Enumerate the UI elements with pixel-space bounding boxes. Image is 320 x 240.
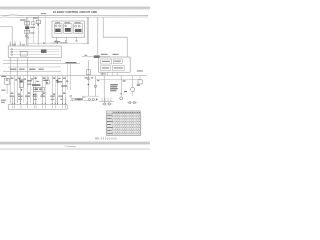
node dot: [57, 42, 59, 44]
wire drop x67b: [66, 64, 68, 90]
wire drop x17: [16, 58, 18, 104]
table header digits: [113, 112, 140, 113]
header bar: [0, 6, 150, 9]
wire riser x33: [32, 17, 34, 43]
node dot mid2: [42, 94, 43, 95]
wire spare: [44, 16, 46, 44]
node x121: [121, 93, 122, 94]
connector symbols above table right: [127, 101, 138, 103]
bus wire top B+: [0, 14, 148, 17]
wire drop x57: [57, 76, 59, 104]
relay box J/B: [52, 21, 85, 37]
wire stub: [50, 42, 57, 44]
fusible link F1: [25, 17, 30, 46]
label fuse: [33, 18, 37, 19]
wire drop x121: [120, 76, 122, 97]
label y54: [101, 54, 108, 55]
relay K2: [65, 25, 71, 32]
label top right of cluster: [41, 13, 46, 14]
table grid horizontals: [106, 114, 140, 133]
label under bcm: [100, 73, 105, 74]
label in bcm3: [102, 67, 109, 68]
label band x44: [43, 80, 48, 81]
wire h y57 right: [82, 56, 110, 58]
connector ring C: [76, 40, 78, 42]
label band x58: [57, 81, 62, 82]
wire riser x98: [97, 17, 99, 57]
breaker CB1: [32, 22, 35, 25]
wire drop x27: [26, 58, 28, 104]
display text block: [110, 84, 118, 91]
wire drop x55: [54, 76, 56, 104]
wire drop x62: [61, 76, 63, 104]
wire drop x10: [9, 58, 11, 104]
table row labels: [107, 115, 112, 135]
bus h y63: [3, 63, 80, 65]
wire label row under box: [60, 42, 67, 43]
mini rail right: [99, 98, 114, 102]
BCM box: [99, 57, 131, 72]
tick label y55: [85, 55, 88, 56]
battery B1: [5, 78, 10, 94]
wire drop K2: [65, 37, 67, 40]
contact stack: [11, 49, 13, 56]
small ring top right of rail: [70, 95, 72, 97]
wire left feed: [0, 27, 12, 46]
bcm pin drop 3: [111, 72, 113, 75]
pin table: [106, 111, 140, 135]
wire drop x20: [20, 76, 22, 104]
dark dash x57: [57, 79, 59, 83]
wire drop x52: [51, 76, 53, 104]
svg-text:MFI. 0 0 0 0 0 0 0 0: MFI. 0 0 0 0 0 0 0 0: [95, 137, 117, 140]
junction block left: [8, 46, 61, 58]
table grid verticals: [113, 111, 139, 135]
feeder stubs into block: [10, 41, 27, 46]
footer bar: [0, 142, 150, 145]
wire drop x23: [22, 76, 24, 104]
label on y63: [65, 62, 76, 63]
wire drop x70: [69, 64, 71, 90]
stub arrowheads: [10, 44, 21, 45]
motor M1: [131, 76, 135, 96]
svg-text:C-Diweiong: C-Diweiong: [64, 146, 76, 148]
bottom terminal rail: [8, 105, 67, 110]
connector symbols above table: [102, 103, 113, 105]
ground symbols row: [71, 99, 81, 101]
fuse F2: [36, 16, 40, 45]
bcm pin drop 2: [106, 72, 108, 75]
table cell digits: [114, 115, 141, 135]
resistor R-end: [138, 76, 142, 84]
label band x62: [61, 85, 67, 86]
ground sym mid: [82, 96, 86, 97]
bus wire top IG: [0, 16, 148, 19]
second label row above rail: [18, 99, 63, 100]
lamp L3: [120, 97, 123, 100]
connector strip CN1: [33, 87, 44, 91]
label batt bottom: [1, 90, 5, 91]
bus h y75 full: [0, 75, 147, 77]
wire drop x104: [103, 76, 105, 104]
node dot mid: [33, 94, 34, 95]
label band x33: [32, 84, 40, 86]
label batt top: [1, 76, 6, 77]
label L-W: [30, 32, 34, 33]
label band x28: [27, 80, 32, 81]
label W-B: [20, 19, 25, 20]
labels above block: [12, 43, 25, 46]
label in bcm2: [114, 61, 121, 62]
lamp L2: [94, 76, 96, 96]
connector blob y56: [94, 55, 100, 58]
switch S1: [19, 79, 23, 90]
footer strip: [0, 148, 150, 150]
label in bcm4: [114, 67, 123, 68]
bus h y67: [8, 66, 61, 68]
wire drop x42: [41, 76, 43, 104]
label 0.85: [30, 27, 35, 28]
wire drop x65: [64, 76, 66, 104]
label above relays: [55, 22, 60, 23]
connector blob mid: [41, 50, 46, 53]
bcm pin drop 4: [116, 72, 118, 75]
bus h y71: [3, 70, 61, 72]
wire drop K1: [55, 37, 57, 40]
rail labels left: [1, 100, 6, 103]
wire h y96: [84, 95, 99, 97]
wire drop x45: [44, 76, 46, 104]
svg-text:2A BODY CONTROL CIRCUIT LINE: 2A BODY CONTROL CIRCUIT LINE: [53, 10, 98, 14]
label row B-01: [10, 69, 16, 70]
relay K3: [75, 25, 82, 32]
wire code labels band: [11, 78, 68, 95]
wire drop x30: [29, 76, 31, 104]
label right col: [137, 70, 143, 71]
terminal ticks: [12, 97, 65, 105]
label on wire y43: [54, 41, 60, 42]
wire drop x35: [35, 76, 37, 104]
bus h y60: [3, 59, 61, 61]
wire riser stepped: [103, 17, 127, 57]
connector ring B: [65, 40, 67, 42]
specks right mid: [85, 77, 140, 92]
diode sym: [47, 77, 49, 79]
wire drop x33: [33, 76, 35, 104]
wire drop K3: [75, 37, 77, 40]
wire h y43: [28, 42, 83, 44]
wire drop x14: [13, 76, 15, 104]
label in bcm1: [102, 61, 110, 62]
terminal labels row: [10, 96, 63, 97]
lamp L1: [86, 60, 90, 96]
small symbols right of rail: [70, 98, 98, 100]
switch S2: [46, 80, 49, 84]
bcm pin drop 1: [101, 72, 103, 75]
relay K1: [55, 25, 60, 32]
rail inner dashes: [13, 105, 66, 108]
bus h y79 right: [96, 79, 141, 81]
terminal feet: [12, 103, 66, 104]
connector ring A: [56, 40, 58, 42]
bus wire pair right: [83, 17, 89, 44]
